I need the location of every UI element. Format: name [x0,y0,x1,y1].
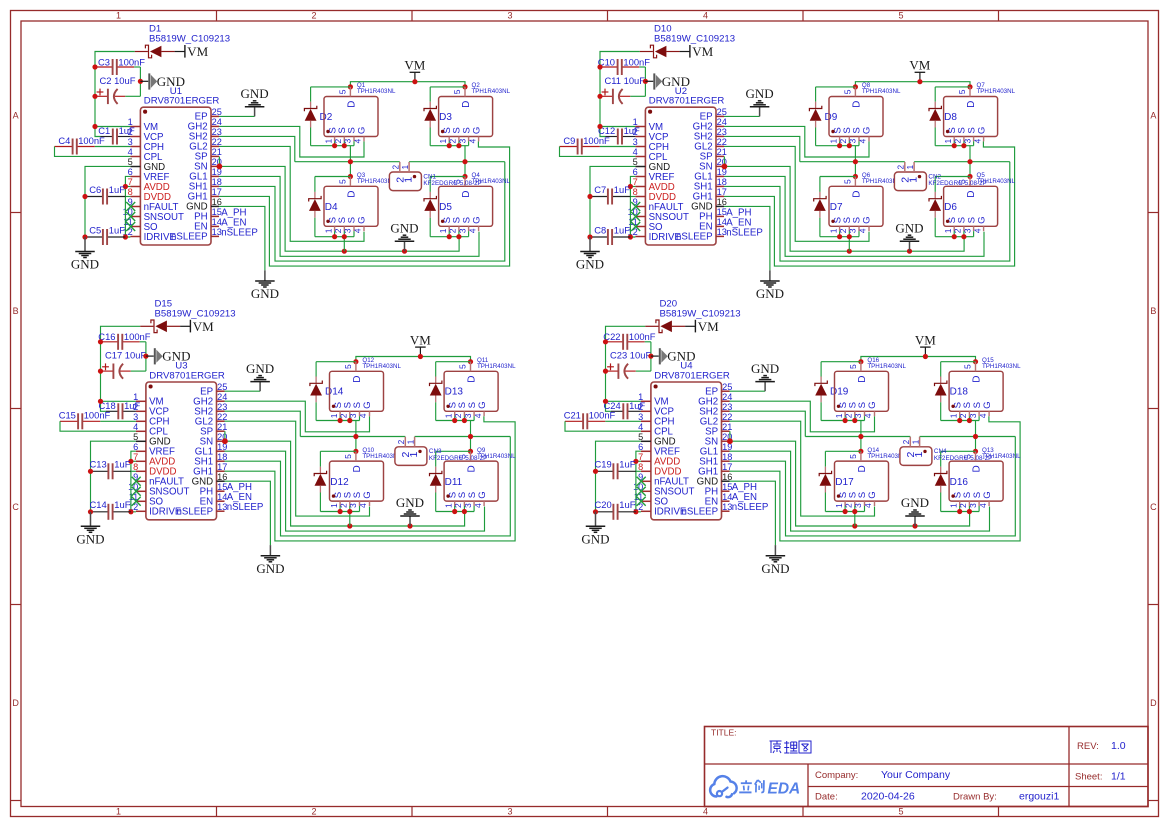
wire VM pin1 [95,126,130,128]
diode D8 [934,102,936,109]
svg-text:4: 4 [133,422,138,432]
svg-text:16: 16 [212,197,222,207]
diode D15 [140,325,153,327]
svg-text:G: G [477,401,488,408]
svg-text:5: 5 [843,89,853,94]
transistor Q16 [835,371,889,411]
svg-text:1uF: 1uF [619,499,635,510]
junction [727,438,733,444]
svg-text:VM: VM [915,332,936,347]
wire phase A [300,436,405,438]
svg-text:B5819W_C109213: B5819W_C109213 [149,34,230,45]
svg-text:D: D [347,190,358,197]
junction [837,234,842,239]
svg-text:1uF: 1uF [614,184,630,195]
wire to diode D16 [941,450,976,452]
transistor Q2 [439,97,493,137]
wire [819,218,821,237]
svg-text:16: 16 [217,472,227,482]
capacitor C21 [565,420,583,422]
svg-text:D: D [857,465,868,472]
IC U3 right pins 13-25 [217,390,225,392]
diode D16 [940,467,942,474]
capacitor C8 [590,236,607,238]
svg-text:TPH1R403NL: TPH1R403NL [357,88,396,95]
svg-text:TPH1R403NL: TPH1R403NL [477,363,516,370]
wire phase B [409,161,505,163]
wire to diode D4 [315,176,351,178]
wire GND pin5 [91,441,136,512]
wire source node B2 [436,511,474,513]
svg-text:5: 5 [898,807,903,817]
wire source node A2 [825,511,864,513]
capacitor C1 [101,136,113,138]
svg-text:GND: GND [256,561,284,576]
wire DVDD stub [630,196,635,198]
wire source node A2 [315,236,354,238]
wire SN to source rail [219,166,459,251]
IC U2 right pins 13-25 [716,115,724,117]
capacitor C16 [101,341,118,343]
wire [820,402,822,420]
ground GND (logic) [774,545,776,556]
wire DVDD stub [636,470,641,472]
svg-text:5: 5 [128,157,133,167]
wire AVDD stub [630,186,635,188]
svg-text:1: 1 [408,452,420,458]
svg-text:1: 1 [438,228,448,233]
junction [722,164,728,170]
svg-text:21: 21 [717,147,727,157]
svg-text:100nF: 100nF [78,135,105,146]
svg-text:D: D [966,190,977,197]
capacitor C12 [606,136,618,138]
svg-text:DRV8701ERGER: DRV8701ERGER [144,96,220,107]
svg-text:4: 4 [703,807,708,817]
no-connect marks pins 9-11 [637,477,646,486]
wire AVDD stub [125,186,130,188]
svg-text:18: 18 [212,177,222,187]
wire GH1 to Q gate [219,141,510,266]
wire SH1 sense [219,162,505,261]
svg-text:2: 2 [392,164,401,169]
svg-text:5: 5 [343,454,353,459]
svg-text:18: 18 [722,452,732,462]
capacitor C20 [596,511,613,513]
junction [603,339,608,344]
junction [973,434,978,439]
junction [447,234,452,239]
svg-text:GND: GND [751,361,779,376]
wire SP to SN [729,431,731,441]
svg-text:D: D [467,465,478,472]
wire SH2 sense [724,136,800,161]
junction [957,418,962,423]
wire to diode D3 [430,86,465,88]
wire source node B [430,145,468,147]
svg-text:1: 1 [828,138,838,143]
wire GL2 to Q gate [219,146,364,241]
svg-text:2: 2 [397,439,406,444]
svg-text:100nF: 100nF [589,410,616,421]
svg-text:1uF: 1uF [614,224,630,235]
svg-text:Drawn By:: Drawn By: [953,792,997,803]
ground GND (EP) [759,107,761,117]
svg-text:Company:: Company: [815,770,858,781]
wire DVDD stub [131,470,136,472]
svg-text:C14: C14 [89,499,106,510]
junction [603,399,608,404]
svg-text:100nF: 100nF [629,331,656,342]
junction [468,434,473,439]
svg-text:G: G [867,491,878,498]
sheet title 原理图 (CJK drawn) [770,740,782,742]
wire source node A [311,145,354,147]
wire [815,128,817,146]
svg-text:D: D [352,375,363,382]
wire phase A [295,161,400,163]
svg-text:C2 10uF: C2 10uF [100,75,136,86]
transistor Q1 [324,97,378,137]
wire SH2 sense [219,136,295,161]
svg-text:1/1: 1/1 [1111,771,1126,783]
wire VM-in top rail [95,52,135,137]
svg-text:C7: C7 [594,184,606,195]
svg-text:D13: D13 [445,387,464,398]
IC U3 left pins 1-12 [136,400,146,402]
junction [92,94,97,99]
junction [348,159,353,164]
junction [843,418,848,423]
svg-text:TITLE:: TITLE: [711,728,737,738]
wire AVDD stub [131,460,136,462]
connector CN4 [900,447,932,466]
diode D12 [319,467,321,474]
no-connect marks pins 9-11 [132,477,141,486]
svg-text:D: D [12,698,19,708]
diode D6 [934,192,936,199]
svg-text:1: 1 [406,439,415,444]
svg-text:24: 24 [717,117,727,127]
junction [967,159,972,164]
wire source node A [821,420,864,422]
wire source node B2 [430,236,468,238]
capacitor C4 [55,146,73,148]
transistor Q5 [944,186,998,226]
wire VM rail [855,82,970,87]
svg-text:100nF: 100nF [124,331,151,342]
svg-text:1: 1 [907,177,919,183]
wire [940,493,942,512]
svg-text:Your Company: Your Company [881,769,951,781]
wire VM pin1 [101,400,136,402]
svg-text:1: 1 [323,228,333,233]
svg-text:VM: VM [404,58,425,73]
svg-text:4: 4 [633,147,638,157]
wire GH2 to Q gate [730,401,875,432]
wire GL1 to Q gate [225,451,485,531]
svg-text:2: 2 [902,439,911,444]
junction [447,143,452,148]
svg-text:D16: D16 [950,477,969,488]
junction [597,124,602,129]
connector CN2 [894,172,926,191]
svg-text:22: 22 [217,412,227,422]
svg-text:100nF: 100nF [84,410,111,421]
junction [858,434,863,439]
svg-text:G: G [471,127,482,134]
junction [597,94,602,99]
junction [952,234,957,239]
wire to diode D14 [316,361,356,363]
capacitor C10 [600,66,617,68]
transistor Q11 [444,371,498,411]
ground flag GND (C2) [146,355,154,357]
ground GND (analog caps) [595,512,597,527]
wire [315,402,317,420]
diode D11 [435,467,437,474]
svg-text:7: 7 [633,177,638,187]
title block frame [705,727,1149,807]
svg-text:nSLEEP: nSLEEP [676,232,713,243]
svg-text:D5: D5 [439,202,452,213]
junction [353,434,358,439]
svg-text:VM: VM [410,332,431,347]
svg-text:1: 1 [943,228,953,233]
ground GND (bridge) [914,516,916,526]
svg-text:7: 7 [128,177,133,187]
transistor Q9 [444,461,498,501]
capacitor C13 [91,470,108,472]
svg-text:A: A [13,110,19,120]
wire source node A [816,145,859,147]
svg-text:3: 3 [128,137,133,147]
svg-text:D: D [461,101,472,108]
svg-text:GND: GND [756,286,784,301]
ground GND (analog caps) [90,512,92,527]
svg-text:22: 22 [212,137,222,147]
svg-text:1uF: 1uF [109,184,125,195]
net flag VM [180,325,190,327]
wire [940,402,942,420]
svg-text:25: 25 [217,382,227,392]
wire C-ground link [650,342,652,371]
svg-text:VM: VM [698,319,719,334]
svg-text:D11: D11 [445,477,463,488]
svg-text:D17: D17 [835,477,854,488]
diode D19 [820,377,822,384]
wire VM-in top rail [600,52,640,137]
capacitor C5 [85,236,102,238]
svg-text:nSLEEP: nSLEEP [732,502,769,513]
connector CN1 [389,172,421,191]
border zone ticks [216,11,218,22]
diode D18 [940,377,942,384]
svg-text:TPH1R403NL: TPH1R403NL [982,363,1021,370]
wire SN to source rail [730,441,970,526]
wire [824,493,826,512]
svg-text:1: 1 [323,138,333,143]
svg-text:TPH1R403NL: TPH1R403NL [362,363,401,370]
svg-text:18: 18 [717,177,727,187]
junction [92,124,97,129]
svg-text:6: 6 [633,167,638,177]
wire GL2 to Q gate [724,146,869,241]
wire SH2 sense [225,411,301,436]
diode D9 [815,102,817,109]
svg-text:KF2EDGRC-5.08-2P: KF2EDGRC-5.08-2P [928,180,986,187]
svg-text:100nF: 100nF [583,135,610,146]
diode D7 [819,192,821,199]
IC U1 right pins 13-25 [211,115,219,117]
wire GND16 down [724,206,770,270]
svg-text:G: G [867,401,878,408]
transistor Q12 [330,371,384,411]
svg-text:D: D [972,465,983,472]
wire VM rail [861,357,976,362]
svg-text:1: 1 [438,138,448,143]
svg-text:C: C [12,502,19,512]
svg-text:1: 1 [116,11,121,21]
capacitor C14 [91,511,108,513]
wire EP to ground [225,390,261,392]
junction [98,369,103,374]
wire to diode D19 [821,361,861,363]
wire phase column B [464,146,466,177]
svg-text:1: 1 [329,413,339,418]
svg-text:6: 6 [128,167,133,177]
ground GND (bridge) [909,241,911,251]
wire GL1 to Q gate [219,176,479,256]
wire source node A [316,420,359,422]
wire SP to SN [218,156,220,166]
svg-text:D: D [857,375,868,382]
svg-text:C20: C20 [594,499,611,510]
wire GND16 down [225,481,271,545]
ground flag GND (C2) [651,355,659,357]
svg-text:G: G [976,216,987,223]
junction [92,64,97,69]
wire source node B2 [935,236,973,238]
svg-text:GND: GND [746,86,774,101]
junction [597,64,602,69]
svg-text:G: G [357,127,368,134]
transistor Q10 [330,461,384,501]
svg-text:TPH1R403NL: TPH1R403NL [862,88,901,95]
svg-text:1.0: 1.0 [1111,740,1126,752]
svg-text:16: 16 [722,472,732,482]
svg-text:D: D [467,375,478,382]
svg-text:23: 23 [212,127,222,137]
svg-text:25: 25 [212,107,222,117]
wire GND16 down [730,481,776,545]
junction [462,159,467,164]
wire VM pin1 [606,400,641,402]
wire VM pin1 [600,126,635,128]
svg-text:G: G [862,216,873,223]
wire SH1 sense [730,437,1016,536]
svg-text:G: G [982,491,993,498]
driver IC U2 body [645,107,716,245]
diode D4 [314,192,316,199]
wire SN to source rail [724,166,964,251]
svg-text:C3: C3 [98,56,110,67]
svg-text:2: 2 [311,807,316,817]
wire SH2 sense [730,411,806,436]
wire [319,493,321,512]
svg-text:2: 2 [897,164,906,169]
svg-text:GND: GND [241,86,269,101]
svg-text:C15: C15 [59,410,76,421]
svg-text:1: 1 [329,503,339,508]
ground GND (analog caps) [589,237,591,252]
svg-text:GND: GND [895,220,923,235]
wire VREF-AVDD-DVDD [125,176,130,237]
wire GND pin5 [85,166,130,237]
svg-text:GND: GND [76,532,104,547]
svg-text:D7: D7 [830,202,843,213]
wire to diode D11 [436,450,471,452]
wire GND16 down [219,206,265,270]
wire source node B [935,145,973,147]
wire VM-in top rail [606,326,646,411]
junction [418,354,423,359]
svg-text:D3: D3 [439,112,452,123]
wire [435,493,437,512]
svg-text:B5819W_C109213: B5819W_C109213 [660,308,741,319]
svg-text:REV:: REV: [1077,741,1099,752]
junction [98,399,103,404]
svg-text:GND: GND [901,495,929,510]
diode D10 [640,51,653,53]
capacitor C9 [560,146,578,148]
driver IC U3 body [146,382,217,520]
svg-text:16: 16 [717,197,727,207]
wire [429,218,431,237]
svg-text:17: 17 [212,187,222,197]
svg-text:5: 5 [963,364,973,369]
wire phase B [920,436,1016,438]
LCEDA logo [710,776,737,796]
wire phase column A [355,421,357,452]
svg-text:21: 21 [217,422,227,432]
wire [934,128,936,146]
svg-text:D: D [461,190,472,197]
svg-text:21: 21 [722,422,732,432]
wire SH1 sense [724,162,1010,261]
wire DVDD stub [125,196,130,198]
junction [837,143,842,148]
svg-text:1: 1 [443,503,453,508]
junction [338,509,343,514]
junction [843,509,848,514]
svg-text:VM: VM [909,58,930,73]
svg-text:21: 21 [212,147,222,157]
ground GND (EP) [254,107,256,117]
svg-text:TPH1R403NL: TPH1R403NL [472,88,511,95]
svg-text:D: D [347,101,358,108]
ground GND (EP) [259,382,261,392]
svg-text:DRV8701ERGER: DRV8701ERGER [654,370,730,381]
svg-text:D12: D12 [330,477,349,488]
svg-text:D4: D4 [325,202,338,213]
junction [332,143,337,148]
svg-text:C23 10uF: C23 10uF [610,350,651,361]
svg-text:D19: D19 [830,387,849,398]
svg-text:17: 17 [717,187,727,197]
junction [853,159,858,164]
svg-text:24: 24 [212,117,222,127]
